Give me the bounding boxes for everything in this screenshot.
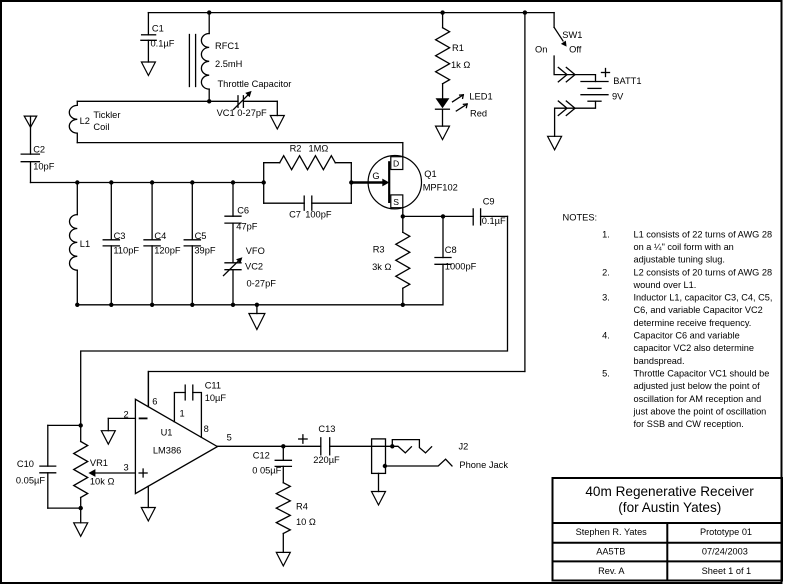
svg-text:G: G xyxy=(372,171,379,181)
svg-text:capacitor VC2 also determine: capacitor VC2 also determine xyxy=(634,343,755,353)
svg-text:adjusted just below the point: adjusted just below the point of xyxy=(634,381,761,391)
svg-text:MPF102: MPF102 xyxy=(423,183,458,193)
svg-text:J2: J2 xyxy=(459,442,469,452)
svg-text:S: S xyxy=(393,197,399,207)
svg-text:2: 2 xyxy=(124,409,129,419)
svg-text:Capacitor C6 and variable: Capacitor C6 and variable xyxy=(634,331,740,341)
svg-text:Q1: Q1 xyxy=(424,169,436,179)
svg-text:3: 3 xyxy=(124,463,129,473)
svg-text:47pF: 47pF xyxy=(236,221,258,231)
svg-text:3k Ω: 3k Ω xyxy=(372,262,391,272)
svg-text:Coil: Coil xyxy=(93,122,109,132)
svg-text:C9: C9 xyxy=(483,197,495,207)
svg-text:AA5TB: AA5TB xyxy=(596,547,625,557)
svg-text:LM386: LM386 xyxy=(153,446,181,456)
svg-text:0.05µF: 0.05µF xyxy=(16,476,45,486)
svg-text:1k Ω: 1k Ω xyxy=(451,60,470,70)
svg-text:1.: 1. xyxy=(602,229,610,239)
svg-text:just above the point of oscill: just above the point of oscillation xyxy=(633,406,767,416)
svg-text:100pF: 100pF xyxy=(305,210,332,220)
svg-text:C2: C2 xyxy=(33,144,45,154)
svg-text:L1: L1 xyxy=(80,239,90,249)
svg-text:C1: C1 xyxy=(152,23,164,33)
svg-text:07/24/2003: 07/24/2003 xyxy=(702,547,748,557)
svg-text:C8: C8 xyxy=(445,245,457,255)
svg-text:40m Regenerative Receiver: 40m Regenerative Receiver xyxy=(585,484,754,499)
svg-text:3.: 3. xyxy=(602,293,610,303)
svg-text:VC1 0-27pF: VC1 0-27pF xyxy=(217,108,267,118)
svg-text:0 05µF: 0 05µF xyxy=(252,465,281,475)
svg-text:R3: R3 xyxy=(373,245,385,255)
svg-text:LED1: LED1 xyxy=(469,91,492,101)
svg-text:1MΩ: 1MΩ xyxy=(309,144,329,154)
svg-text:oscillation for AM reception a: oscillation for AM reception and xyxy=(634,394,762,404)
svg-text:4.: 4. xyxy=(602,331,610,341)
svg-text:Throttle Capacitor: Throttle Capacitor xyxy=(218,79,292,89)
svg-text:Inductor L1, capacitor C3, C4,: Inductor L1, capacitor C3, C4, C5, xyxy=(634,293,773,303)
svg-text:C11: C11 xyxy=(205,381,221,391)
svg-text:10µF: 10µF xyxy=(205,393,227,403)
svg-text:SW1: SW1 xyxy=(562,30,582,40)
svg-text:Rev. A: Rev. A xyxy=(598,566,625,576)
svg-text:R1: R1 xyxy=(452,43,464,53)
svg-text:BATT1: BATT1 xyxy=(613,76,641,86)
svg-text:0.1µF: 0.1µF xyxy=(151,38,175,48)
svg-text:Prototype 01: Prototype 01 xyxy=(700,527,752,537)
svg-text:NOTES:: NOTES: xyxy=(563,213,598,223)
svg-text:110pF: 110pF xyxy=(113,245,139,255)
svg-text:L1 consists of 22 turns of AWG: L1 consists of 22 turns of AWG 28 xyxy=(634,229,773,239)
svg-text:Tickler: Tickler xyxy=(93,110,120,120)
svg-text:0.1µF: 0.1µF xyxy=(482,216,506,226)
svg-text:C3: C3 xyxy=(114,231,126,241)
svg-text:C13: C13 xyxy=(318,424,335,434)
svg-text:adjustable tuning slug.: adjustable tuning slug. xyxy=(634,255,725,265)
svg-text:10k Ω: 10k Ω xyxy=(90,476,115,486)
svg-text:U1: U1 xyxy=(161,427,173,437)
svg-text:bandspread.: bandspread. xyxy=(634,356,685,366)
svg-text:on a ¼" coil form with an: on a ¼" coil form with an xyxy=(634,242,734,252)
svg-text:120pF: 120pF xyxy=(154,245,181,255)
svg-text:6: 6 xyxy=(152,397,157,407)
svg-text:5: 5 xyxy=(227,433,232,443)
svg-text:L2: L2 xyxy=(80,116,90,126)
svg-text:Sheet 1 of 1: Sheet 1 of 1 xyxy=(702,566,752,576)
svg-text:1000pF: 1000pF xyxy=(445,261,477,271)
svg-text:On: On xyxy=(535,45,547,55)
svg-text:5.: 5. xyxy=(602,368,610,378)
svg-text:9V: 9V xyxy=(612,91,624,101)
svg-text:C12: C12 xyxy=(253,450,270,460)
svg-text:RFC1: RFC1 xyxy=(215,41,239,51)
svg-text:C4: C4 xyxy=(154,231,166,241)
svg-text:wound over L1.: wound over L1. xyxy=(633,280,697,290)
svg-text:VR1: VR1 xyxy=(90,458,108,468)
svg-text:Red: Red xyxy=(470,109,487,119)
svg-text:C7: C7 xyxy=(289,210,301,220)
svg-text:VFO: VFO xyxy=(246,246,265,256)
svg-text:Phone Jack: Phone Jack xyxy=(459,460,508,470)
svg-text:Stephen R. Yates: Stephen R. Yates xyxy=(576,527,648,537)
svg-text:Throttle Capacitor VC1 should: Throttle Capacitor VC1 should be xyxy=(634,368,770,378)
svg-text:R2: R2 xyxy=(290,144,302,154)
svg-text:(for Austin Yates): (for Austin Yates) xyxy=(618,500,721,515)
svg-text:C10: C10 xyxy=(17,459,34,469)
svg-text:8: 8 xyxy=(204,424,209,434)
svg-text:C5: C5 xyxy=(195,231,207,241)
svg-text:220µF: 220µF xyxy=(313,455,340,465)
svg-text:1: 1 xyxy=(180,409,185,419)
svg-text:VC2: VC2 xyxy=(245,262,263,272)
svg-text:10pF: 10pF xyxy=(33,161,55,171)
svg-text:Off: Off xyxy=(569,44,582,54)
svg-text:R4: R4 xyxy=(296,501,308,511)
svg-text:2.: 2. xyxy=(602,267,610,277)
svg-text:2.5mH: 2.5mH xyxy=(215,59,242,69)
svg-text:0-27pF: 0-27pF xyxy=(247,278,277,288)
svg-text:39pF: 39pF xyxy=(194,245,216,255)
svg-text:D: D xyxy=(393,159,399,169)
svg-text:C6: C6 xyxy=(237,206,249,216)
svg-text:L2 consists of 20 turns of AWG: L2 consists of 20 turns of AWG 28 xyxy=(634,267,773,277)
svg-text:determine receive frequency.: determine receive frequency. xyxy=(634,318,752,328)
svg-text:C6, and variable Capacitor VC2: C6, and variable Capacitor VC2 xyxy=(634,305,763,315)
svg-text:10 Ω: 10 Ω xyxy=(296,517,316,527)
svg-text:for SSB and CW reception.: for SSB and CW reception. xyxy=(634,419,744,429)
